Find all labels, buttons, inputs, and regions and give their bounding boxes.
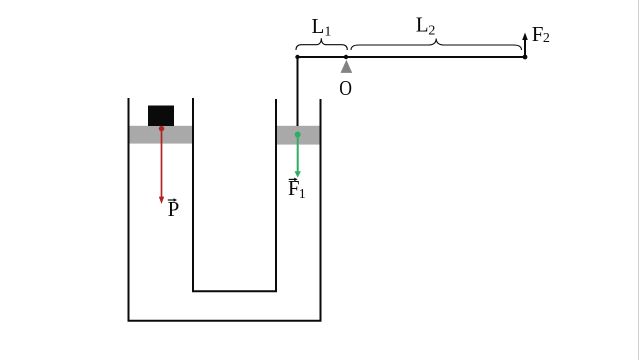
svg-text:2: 2 bbox=[543, 31, 550, 46]
lever beam bbox=[297, 56, 525, 58]
brace L2 bbox=[351, 39, 522, 51]
right piston bbox=[277, 126, 320, 145]
label F2 bbox=[532, 22, 550, 46]
pivot node bbox=[344, 55, 348, 59]
lever left end node bbox=[295, 55, 299, 59]
label P (vector) bbox=[168, 197, 180, 221]
left piston bbox=[130, 126, 193, 144]
force F1 arrow bbox=[295, 132, 301, 178]
svg-text:F: F bbox=[532, 22, 544, 46]
svg-text:1: 1 bbox=[324, 25, 331, 40]
label F1 (vector) bbox=[288, 176, 306, 202]
label L1 bbox=[312, 14, 332, 40]
svg-text:P: P bbox=[168, 197, 180, 221]
right edge faint line bbox=[638, 0, 640, 360]
svg-text:L: L bbox=[312, 14, 325, 38]
label L2 bbox=[416, 12, 436, 38]
fulcrum triangle bbox=[341, 60, 353, 73]
svg-text:1: 1 bbox=[299, 187, 306, 202]
lever right end node bbox=[523, 55, 528, 60]
piston rod bbox=[297, 56, 299, 126]
svg-text:2: 2 bbox=[428, 24, 435, 39]
force P arrow bbox=[159, 126, 164, 204]
vessel inner U wall bbox=[193, 98, 276, 291]
svg-text:L: L bbox=[416, 12, 429, 36]
weight block bbox=[148, 106, 174, 127]
svg-text:O: O bbox=[339, 77, 352, 100]
brace L1 bbox=[296, 38, 347, 50]
force F2 arrow bbox=[522, 33, 528, 57]
vessel outer wall bbox=[129, 98, 321, 321]
